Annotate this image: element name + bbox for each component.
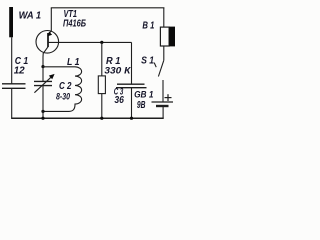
- svg-text:9В: 9В: [137, 100, 146, 111]
- svg-text:330 К: 330 К: [104, 65, 131, 76]
- switch S1 blade: [158, 60, 163, 76]
- wire top rail to B1: [163, 8, 165, 27]
- wire R1 top: [101, 42, 103, 76]
- node tank top junction: [41, 65, 44, 68]
- node R1 top junction: [100, 41, 103, 44]
- headphone B1: [160, 27, 175, 47]
- svg-text:12: 12: [14, 66, 25, 77]
- wire C1 to bottom rail: [11, 88, 13, 118]
- antenna WA1: [9, 7, 13, 37]
- wire C2 branch upper: [42, 67, 44, 82]
- transistor VT1 base lead wire to R1/C3: [48, 41, 132, 43]
- node R1 to rail: [100, 117, 103, 120]
- wire R1 bottom to rail: [101, 94, 103, 119]
- svg-text:WA 1: WA 1: [19, 10, 42, 21]
- wire C2 to rail: [42, 86, 44, 119]
- wire tank top to coil: [43, 66, 75, 68]
- capacitor C2 variable plates: [34, 81, 52, 85]
- inductor L1: [43, 67, 82, 112]
- node L1 bottom joins C2 wire: [41, 110, 44, 113]
- battery GB1: [152, 102, 174, 106]
- svg-text:П416Б: П416Б: [63, 19, 86, 30]
- wire B1 to S1: [163, 46, 165, 60]
- top rail wire: [51, 7, 165, 9]
- wire collector line corner down to C3: [131, 42, 133, 84]
- wire C3 to rail: [131, 88, 133, 119]
- capacitor C3: [116, 84, 147, 88]
- svg-text:36: 36: [114, 95, 124, 106]
- capacitor C1: [2, 84, 26, 89]
- resistor R1: [98, 76, 105, 94]
- transistor VT1 base bar: [47, 33, 49, 47]
- capacitor C2 arrow: [34, 74, 54, 93]
- transistor VT1 emitter with arrow: [47, 31, 52, 36]
- wire battery to rail: [162, 106, 164, 118]
- bottom rail wire: [11, 117, 164, 119]
- transistor VT1 circle: [36, 31, 59, 54]
- svg-text:S 1: S 1: [141, 55, 154, 66]
- wire S1 to battery: [162, 80, 164, 102]
- node C3 to rail: [130, 117, 133, 120]
- wire emitter to top rail: [50, 8, 52, 31]
- node tank to rail: [41, 117, 44, 120]
- transistor VT1 collector lead: [43, 47, 48, 67]
- svg-text:B 1: B 1: [142, 20, 154, 31]
- svg-text:L 1: L 1: [67, 57, 80, 68]
- ink speck near S1 label: [154, 63, 156, 68]
- svg-text:8-30: 8-30: [56, 91, 71, 102]
- wire antenna to C1: [11, 37, 13, 83]
- battery GB1 plus sign: [165, 94, 172, 101]
